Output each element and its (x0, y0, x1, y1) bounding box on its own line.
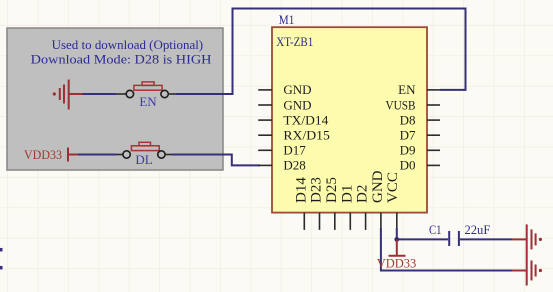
wire ground to EN button (83, 93, 117, 95)
wire VCC pin down to junction (396, 228, 398, 239)
pin D14 (bottom 1) (293, 177, 309, 230)
svg-text:M1: M1 (279, 12, 295, 27)
svg-text:GND: GND (283, 82, 311, 97)
pin D7 (right 4) (400, 128, 440, 143)
svg-text:EN: EN (398, 82, 416, 97)
IC M1 XT-ZB1 body (272, 27, 427, 212)
svg-text:D2: D2 (355, 185, 371, 203)
pushbutton DL (116, 142, 172, 167)
svg-text:D28: D28 (283, 158, 305, 173)
wire (cut off, left edge top) (0, 248, 3, 252)
svg-text:Download Mode: D28 is HIGH: Download Mode: D28 is HIGH (31, 51, 212, 66)
pin EN (right 1) (398, 82, 440, 97)
pin GND (left 2) (258, 97, 311, 112)
ground (bottom right) (512, 255, 536, 286)
svg-text:EN: EN (139, 94, 157, 109)
pin D0 (right 6) (400, 158, 440, 173)
svg-text:VCC: VCC (385, 172, 401, 203)
note text (31, 37, 212, 67)
pin TX/D14 (left 3) (258, 112, 329, 127)
wire EN button to IC pin EN (176, 9, 466, 95)
pin D25 (bottom 3) (324, 177, 340, 230)
svg-text:GND: GND (370, 170, 386, 203)
pushbutton EN (116, 82, 176, 109)
wire GND pin to ground (bottom) (381, 228, 512, 271)
svg-text:D7: D7 (400, 128, 416, 143)
note box (7, 28, 223, 170)
pin D2 (bottom 5) (355, 185, 371, 230)
pin D17 (left 5) (258, 143, 306, 158)
svg-text:RX/D15: RX/D15 (283, 128, 330, 143)
svg-text:D0: D0 (400, 158, 416, 173)
svg-text:D14: D14 (293, 177, 309, 203)
svg-text:D8: D8 (400, 112, 416, 127)
capacitor C1, 22uF (429, 222, 490, 246)
svg-text:Used to download (Optional): Used to download (Optional) (52, 37, 204, 52)
svg-text:D17: D17 (283, 143, 306, 158)
svg-text:GND: GND (283, 97, 311, 112)
pin D28 (left 6) (258, 158, 306, 173)
svg-text:VDD33: VDD33 (24, 147, 62, 162)
svg-text:C1: C1 (429, 222, 442, 237)
svg-text:TX/D14: TX/D14 (283, 112, 329, 127)
svg-text:D25: D25 (324, 177, 340, 203)
ground (left, in note box) (60, 80, 83, 110)
pin VCC (bottom 7) (385, 172, 401, 230)
node junction (VCC / VDD33 / C1) (394, 237, 399, 242)
svg-text:D9: D9 (400, 143, 416, 158)
pin D8 (right 3) (400, 112, 440, 127)
pin D23 (bottom 2) (309, 177, 325, 230)
ground (top right) (512, 224, 536, 255)
pin D9 (right 5) (400, 143, 440, 158)
wire VDD33 to DL button (78, 154, 116, 156)
power port VDD33 (bottom) (377, 239, 417, 270)
wire (cut off, left edge bottom) (0, 266, 3, 270)
svg-text:22uF: 22uF (465, 222, 491, 237)
pin GND (left 1) (258, 82, 311, 97)
pin RX/D15 (left 4) (258, 128, 330, 143)
pin GND (bottom 6) (370, 170, 386, 230)
pin VUSB (right 2) (386, 97, 441, 112)
svg-text:D23: D23 (309, 177, 325, 203)
svg-text:VDD33: VDD33 (377, 255, 417, 270)
svg-text:D1: D1 (339, 185, 355, 203)
svg-text:XT-ZB1: XT-ZB1 (276, 34, 313, 49)
wire capacitor to ground (top right) (460, 238, 512, 240)
power port VDD33 (left) (24, 147, 78, 162)
wire DL button to IC pin D28 (172, 155, 260, 166)
wire junction to capacitor C1 (397, 238, 448, 240)
svg-text:VUSB: VUSB (386, 97, 416, 112)
pin D1 (bottom 4) (339, 185, 355, 230)
svg-text:DL: DL (135, 152, 152, 167)
